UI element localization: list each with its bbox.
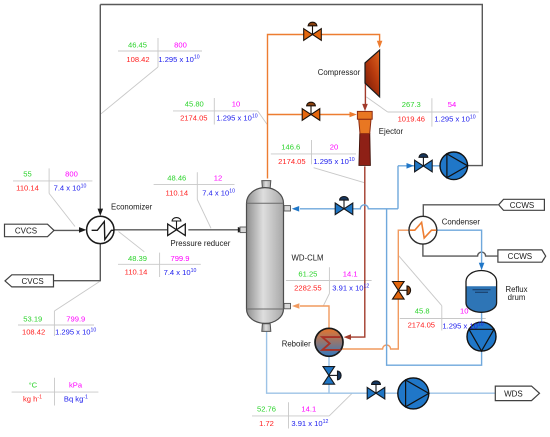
- svg-text:108.42: 108.42: [126, 55, 149, 64]
- svg-text:1.295 x 1010: 1.295 x 1010: [434, 114, 475, 123]
- svg-text:WDS: WDS: [504, 389, 523, 398]
- svg-text:48.46: 48.46: [167, 174, 186, 183]
- svg-text:2174.05: 2174.05: [180, 114, 207, 123]
- svg-text:10: 10: [460, 307, 468, 316]
- svg-text:110.14: 110.14: [125, 268, 148, 277]
- svg-text:110.14: 110.14: [16, 184, 39, 193]
- svg-text:48.39: 48.39: [128, 254, 147, 263]
- svg-text:2174.05: 2174.05: [278, 157, 305, 166]
- svg-text:Pressure reducer: Pressure reducer: [171, 239, 231, 248]
- svg-text:10: 10: [232, 100, 240, 109]
- svg-text:Compressor: Compressor: [318, 68, 361, 77]
- svg-text:267.3: 267.3: [402, 100, 421, 109]
- svg-text:1.295 x 1010: 1.295 x 1010: [313, 157, 354, 166]
- svg-text:1.72: 1.72: [259, 419, 274, 428]
- svg-text:14.1: 14.1: [301, 405, 316, 414]
- svg-text:CCWS: CCWS: [508, 252, 532, 261]
- svg-text:54: 54: [448, 100, 456, 109]
- svg-text:drum: drum: [508, 293, 526, 302]
- svg-text:52.76: 52.76: [257, 405, 276, 414]
- svg-text:°C: °C: [29, 381, 38, 390]
- svg-text:146.6: 146.6: [281, 142, 300, 151]
- svg-text:Economizer: Economizer: [111, 203, 153, 212]
- svg-text:Reboiler: Reboiler: [282, 339, 311, 348]
- svg-text:45.8: 45.8: [415, 307, 430, 316]
- svg-text:1.295 x 1010: 1.295 x 1010: [216, 113, 257, 122]
- svg-text:kPa: kPa: [69, 381, 83, 390]
- svg-text:108.42: 108.42: [22, 327, 45, 336]
- svg-text:799.9: 799.9: [170, 254, 189, 263]
- svg-text:2174.05: 2174.05: [408, 320, 435, 329]
- svg-text:800: 800: [174, 40, 187, 49]
- svg-text:WD-CLM: WD-CLM: [292, 253, 324, 262]
- svg-text:1.295 x 1010: 1.295 x 1010: [55, 327, 96, 336]
- svg-text:45.80: 45.80: [185, 100, 204, 109]
- svg-text:Condenser: Condenser: [442, 217, 481, 226]
- svg-text:53.19: 53.19: [23, 315, 42, 324]
- svg-text:110.14: 110.14: [165, 189, 188, 198]
- svg-text:61.25: 61.25: [298, 269, 317, 278]
- svg-text:1019.46: 1019.46: [398, 115, 425, 124]
- svg-text:20: 20: [330, 142, 338, 151]
- svg-text:1.295 x 1010: 1.295 x 1010: [158, 55, 199, 64]
- svg-text:CVCS: CVCS: [21, 277, 43, 286]
- svg-text:2282.55: 2282.55: [294, 283, 321, 292]
- svg-text:46.45: 46.45: [128, 40, 147, 49]
- svg-text:1.295 x 1010: 1.295 x 1010: [442, 321, 483, 330]
- svg-text:55: 55: [23, 169, 31, 178]
- svg-text:Ejector: Ejector: [379, 127, 404, 136]
- svg-text:800: 800: [65, 169, 78, 178]
- svg-text:14.1: 14.1: [343, 269, 358, 278]
- svg-text:799.9: 799.9: [66, 315, 85, 324]
- svg-text:CVCS: CVCS: [15, 226, 37, 235]
- svg-text:12: 12: [214, 174, 222, 183]
- svg-text:CCWS: CCWS: [510, 201, 534, 210]
